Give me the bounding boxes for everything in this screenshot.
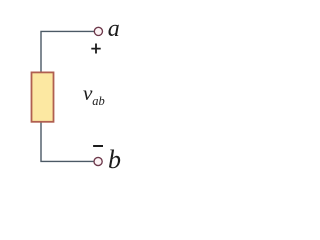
polarity plus sign: [91, 44, 100, 54]
terminal b (open circle): [94, 157, 102, 165]
polarity minus sign: [93, 145, 103, 147]
terminal a (open circle): [94, 27, 102, 35]
generic circuit element (rectangle): [32, 72, 54, 121]
wire: top lead from element up and right to terminal a: [41, 31, 94, 71]
svg-text:ab: ab: [92, 94, 105, 108]
wire: bottom lead from element down and right to terminal b: [41, 123, 94, 162]
svg-text:b: b: [108, 145, 121, 174]
svg-text:a: a: [108, 16, 120, 42]
svg-text:v: v: [83, 83, 93, 105]
